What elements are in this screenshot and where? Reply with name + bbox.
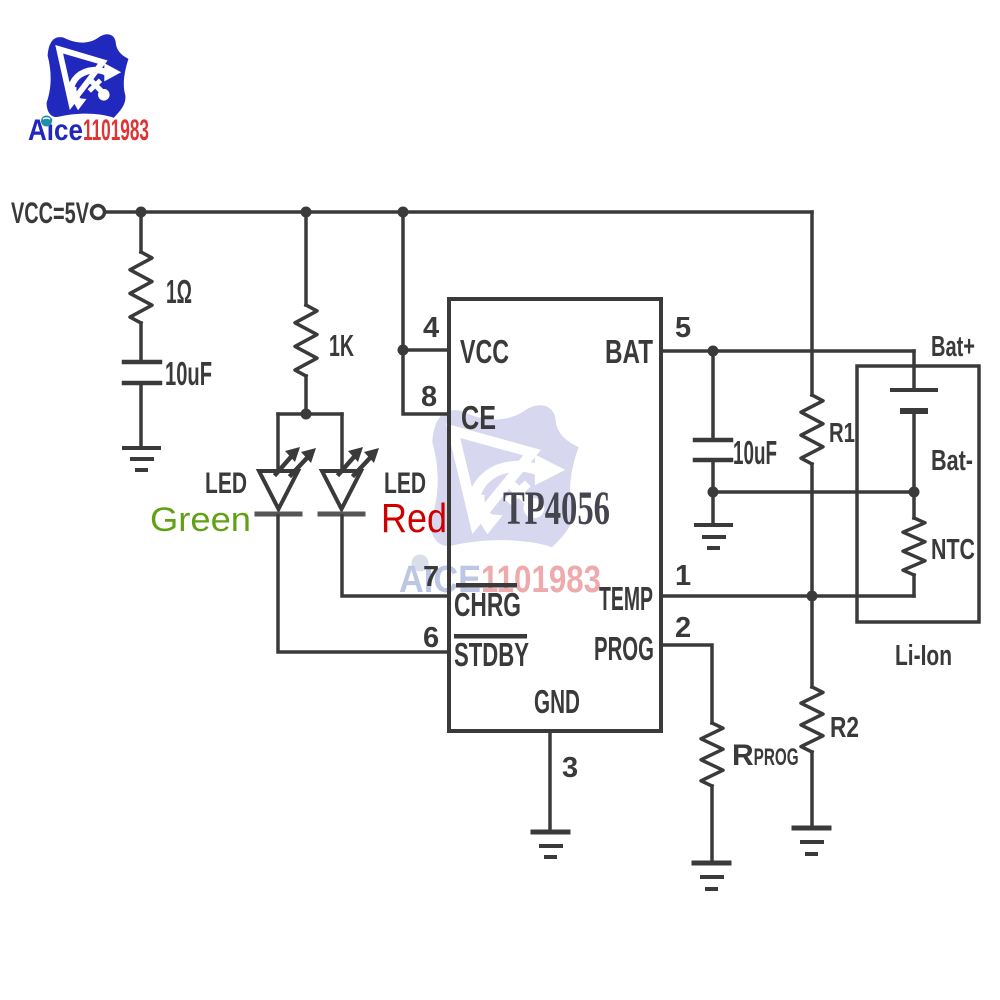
svg-text:Bat+: Bat+ xyxy=(931,331,975,363)
ground R2 xyxy=(794,828,829,854)
wire R2 to ground xyxy=(810,752,814,826)
wire green LED to STDBY pin 6 xyxy=(278,516,449,652)
battery box Li-Ion xyxy=(857,366,979,622)
svg-text:8: 8 xyxy=(421,381,437,413)
svg-text:NTC: NTC xyxy=(931,534,975,566)
wire red LED anode xyxy=(340,414,344,470)
LED D2 red triangle xyxy=(322,471,361,509)
svg-text:Green: Green xyxy=(150,501,251,539)
LED D1 arrows xyxy=(276,458,306,475)
battery BT1 plates xyxy=(892,390,936,411)
svg-text:1101983: 1101983 xyxy=(83,114,149,147)
svg-text:R1: R1 xyxy=(829,417,855,448)
ground RPROG xyxy=(694,863,729,889)
wire cap to ground xyxy=(139,385,143,446)
junction TEMP R1 R2 xyxy=(807,591,818,602)
svg-text:VCC=5V: VCC=5V xyxy=(11,197,89,230)
svg-text:RPROG: RPROG xyxy=(732,739,799,772)
wire NTC to TEMP line xyxy=(912,575,916,596)
IC U1 TP4056 body xyxy=(449,299,661,731)
brand text Aice1101983 xyxy=(28,114,149,147)
wire 1K to LED pair xyxy=(304,376,308,414)
resistor RPROG xyxy=(701,723,723,786)
svg-text:4: 4 xyxy=(423,312,439,344)
svg-text:7: 7 xyxy=(423,561,439,593)
junction cap2 bottom xyxy=(708,487,719,498)
wire right vertical bus xyxy=(810,212,814,395)
svg-text:10uF: 10uF xyxy=(733,434,777,471)
node VCC terminal xyxy=(92,206,105,219)
svg-text:10uF: 10uF xyxy=(165,355,212,392)
wire cap2 branch xyxy=(711,351,715,438)
junction top rail at 1K xyxy=(301,207,312,218)
watermark logo xyxy=(430,405,578,547)
svg-text:Bat-: Bat- xyxy=(931,445,973,477)
resistor NTC xyxy=(903,518,925,575)
ground cap2 xyxy=(696,525,731,548)
wire cap2 to ground xyxy=(711,462,715,523)
wire pin 5 BAT xyxy=(661,349,914,353)
wire cap2 to battery negative xyxy=(713,490,914,494)
LED D1 green triangle xyxy=(259,471,298,509)
svg-text:R2: R2 xyxy=(830,712,859,744)
svg-text:2: 2 xyxy=(675,612,691,644)
resistor R1 xyxy=(801,395,823,464)
svg-text:STDBY: STDBY xyxy=(454,636,529,673)
junction pin4 branch xyxy=(398,345,409,356)
svg-text:5: 5 xyxy=(675,312,691,344)
junction battery negative xyxy=(909,487,920,498)
resistor R 1ohm xyxy=(130,252,152,323)
svg-text:LED: LED xyxy=(205,467,247,500)
junction top rail at 1ohm xyxy=(136,207,147,218)
svg-text:1Ω: 1Ω xyxy=(166,273,192,310)
svg-text:BAT: BAT xyxy=(605,333,653,370)
wire 1ohm to cap xyxy=(139,323,143,360)
wire pin 1 TEMP xyxy=(661,594,914,598)
svg-text:PROG: PROG xyxy=(594,630,654,667)
ground pin3 xyxy=(533,832,568,857)
wire R1 to TEMP junction xyxy=(810,464,814,687)
svg-text:1: 1 xyxy=(675,560,691,592)
svg-text:1K: 1K xyxy=(329,328,354,363)
resistor R 1K xyxy=(295,305,317,376)
svg-text:TP4056: TP4056 xyxy=(503,482,610,535)
wire pin 4 xyxy=(403,348,449,352)
wire RPROG to ground xyxy=(710,786,714,861)
watermark text AICE1101983 xyxy=(399,555,601,602)
LED D2 arrows xyxy=(339,458,369,475)
brand logo shield xyxy=(47,34,129,117)
LED D1 cathode bar xyxy=(257,512,300,517)
resistor R2 xyxy=(801,687,823,752)
svg-text:GND: GND xyxy=(534,683,580,720)
svg-text:Red: Red xyxy=(381,495,447,541)
junction LED bar xyxy=(301,409,312,420)
svg-text:CHRG: CHRG xyxy=(454,586,521,623)
svg-text:Li-Ion: Li-Ion xyxy=(895,640,952,672)
wire pin 2 PROG xyxy=(661,645,712,723)
capacitor C1 10uF left xyxy=(124,362,160,383)
wire battery positive drop xyxy=(912,351,916,388)
junction top rail at VCC branch xyxy=(398,207,409,218)
wire green LED anode xyxy=(276,414,280,470)
svg-text:TEMP: TEMP xyxy=(599,580,653,617)
wire top rail xyxy=(105,210,812,214)
svg-text:VCC: VCC xyxy=(460,333,509,370)
svg-text:Aice: Aice xyxy=(28,114,83,147)
capacitor C2 10uF right xyxy=(695,440,731,460)
wire 1ohm branch xyxy=(139,212,143,252)
wire battery negative to NTC xyxy=(912,414,916,518)
wire VCC CE branch xyxy=(403,212,449,414)
wire 1K branch xyxy=(304,212,308,305)
svg-text:3: 3 xyxy=(562,752,578,784)
svg-text:6: 6 xyxy=(423,622,439,654)
junction BAT cap2 xyxy=(708,346,719,357)
ground left xyxy=(124,448,159,470)
wire red LED to CHRG pin 7 xyxy=(342,516,449,596)
wire pin 3 GND xyxy=(548,731,552,830)
svg-text:CE: CE xyxy=(461,399,496,436)
LED D2 cathode bar xyxy=(320,512,363,517)
wire LED anode bar xyxy=(278,412,342,416)
